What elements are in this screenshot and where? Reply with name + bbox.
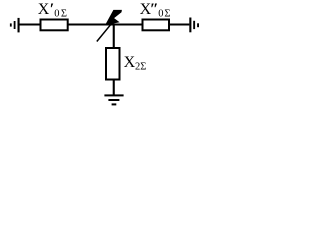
fault bolt (lightning) at node K	[97, 10, 122, 42]
wire: vertical branch to X2	[113, 25, 115, 96]
resistor X2 (vertical box)	[106, 48, 120, 80]
svg-text:X2Σ: X2Σ	[124, 54, 147, 72]
svg-text:X″0Σ: X″0Σ	[140, 1, 171, 19]
resistor X''0 (right box)	[143, 20, 170, 31]
resistor X'0 (left box)	[41, 20, 68, 31]
wire: main horizontal bus	[20, 23, 190, 25]
ground (right, rotated)	[189, 18, 199, 33]
ground (left, rotated)	[10, 18, 20, 33]
ground (bottom)	[104, 94, 123, 105]
svg-text:X′0Σ: X′0Σ	[38, 1, 67, 19]
